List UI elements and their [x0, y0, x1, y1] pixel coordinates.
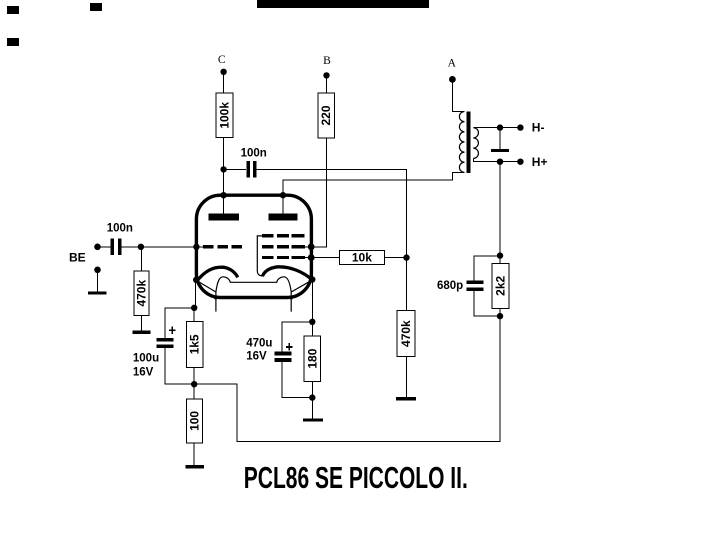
- transformer T1 core: [466, 111, 470, 173]
- svg-text:B: B: [323, 55, 331, 67]
- scan artifact square 1: [7, 6, 19, 14]
- triode cathode: [197, 267, 238, 281]
- resistor 100k: [216, 93, 233, 138]
- junction 180/470u/ground: [309, 394, 315, 400]
- svg-text:680p: 680p: [437, 280, 463, 292]
- ground on H- line: [491, 149, 509, 152]
- svg-text:470k: 470k: [135, 280, 149, 307]
- junction heater right envelope: [289, 296, 293, 300]
- capacitor 100n input plates: [111, 238, 122, 255]
- wire 100k to triode anode: [223, 138, 225, 214]
- wire 100n cap to 10k junction: [256, 169, 406, 257]
- wire secondary bottom H+ line: [473, 158, 520, 161]
- svg-text:A: A: [448, 58, 457, 70]
- ground below 470k output: [396, 397, 416, 401]
- wire C terminal to 100k: [223, 72, 225, 93]
- wire grid node to 470k: [140, 247, 142, 271]
- wire 470k input to ground: [140, 316, 142, 331]
- wire 470k to ground: [405, 357, 407, 397]
- svg-text:H-: H-: [532, 120, 545, 134]
- svg-text:100: 100: [187, 411, 201, 431]
- junction cathode/180/470u: [309, 319, 315, 325]
- svg-text:100k: 100k: [217, 102, 231, 129]
- junction triode grid envelope: [193, 244, 199, 250]
- wire B terminal to 220: [326, 75, 328, 93]
- wire H+ down to 2k2 node: [499, 162, 501, 256]
- svg-text:100u: 100u: [133, 352, 159, 364]
- wire 100 to ground: [193, 443, 195, 465]
- node B terminal dot: [323, 72, 329, 78]
- wire triode cathode down: [194, 280, 196, 308]
- wire 2k2 bottom lead: [499, 308, 501, 316]
- capacitor 470u plus sign: [286, 343, 293, 351]
- resistor 470k input: [134, 271, 149, 316]
- pentode anode plate: [269, 214, 298, 221]
- ground below BE: [88, 291, 107, 294]
- g1 lead to envelope: [305, 257, 311, 259]
- wire cathode node to 470u: [282, 322, 312, 352]
- svg-text:16V: 16V: [133, 366, 154, 378]
- resistor 100: [187, 399, 203, 443]
- node H- terminal dot: [517, 124, 523, 130]
- scan artifact bar: [257, 0, 429, 8]
- pentode grid g1 dashes: [262, 256, 305, 259]
- capacitor 100u plus sign: [169, 326, 176, 334]
- resistor 1k5: [186, 322, 203, 368]
- junction triode cathode envelope: [193, 277, 199, 283]
- tube V1 PCL86 envelope: [196, 195, 311, 297]
- resistor 220: [318, 93, 334, 138]
- capacitor 470u plates: [274, 352, 291, 363]
- junction g2 envelope: [308, 243, 315, 250]
- wire 220 to screen grid g2: [311, 138, 326, 247]
- wire BE terminal to 100n: [98, 246, 111, 248]
- junction 2k2/680p bottom: [497, 313, 503, 319]
- ground below 470k input: [133, 331, 151, 334]
- g2 lead to envelope: [305, 246, 311, 248]
- junction pentode anode envelope: [280, 192, 286, 198]
- node C terminal dot: [220, 69, 226, 75]
- svg-text:1k5: 1k5: [188, 334, 202, 354]
- svg-text:220: 220: [319, 105, 333, 125]
- junction 10k/470k: [403, 254, 409, 260]
- svg-text:10k: 10k: [352, 251, 372, 265]
- svg-text:100n: 100n: [241, 147, 267, 159]
- wire node to 470k top: [406, 258, 408, 311]
- wire secondary top H- line: [473, 127, 520, 129]
- junction H+: [497, 159, 503, 165]
- node BE input dot: [94, 244, 101, 251]
- svg-text:16V: 16V: [246, 351, 267, 363]
- pentode cathode: [262, 267, 312, 280]
- svg-text:2k2: 2k2: [494, 275, 508, 295]
- wire 180 node to ground: [311, 398, 313, 419]
- ground below 100: [185, 465, 204, 468]
- node H+ terminal dot: [517, 159, 523, 165]
- node BE ground dot: [94, 267, 101, 274]
- wire 180 bottom lead: [311, 381, 313, 397]
- wire 680p top branch: [474, 256, 500, 280]
- wire cathode node to 100u: [165, 308, 194, 338]
- junction g1 envelope: [308, 254, 315, 261]
- wire feedback to triode cathode: [194, 316, 500, 441]
- g3 tie line to cathode: [257, 236, 262, 276]
- resistor 10k: [339, 251, 384, 265]
- wire node to 100n coupling cap: [224, 168, 247, 170]
- scan artifact square 2: [90, 3, 102, 11]
- pentode grid g2 dashes: [262, 245, 305, 248]
- pentode grid g3 dashes: [262, 234, 305, 237]
- node A terminal dot: [449, 76, 456, 83]
- resistor 470k output: [397, 311, 415, 357]
- junction triode anode envelope: [220, 192, 226, 198]
- capacitor 100n coupling plates: [246, 161, 256, 178]
- junction H- cap: [497, 124, 503, 130]
- wire pentode cathode down: [311, 280, 313, 322]
- svg-text:C: C: [218, 54, 226, 66]
- wire H- ground stub: [499, 128, 501, 149]
- wire 1k5 bottom lead: [193, 367, 195, 384]
- ground below 180: [303, 418, 323, 421]
- wire g1 to 10k: [311, 257, 339, 259]
- svg-text:470k: 470k: [399, 320, 413, 347]
- junction 2k2/680p top: [497, 252, 503, 258]
- capacitor 100u plates: [157, 338, 174, 348]
- junction cathode/1k5/100u: [191, 305, 197, 311]
- transformer T1 secondary winding: [473, 128, 478, 159]
- wire 100n to triode grid: [122, 246, 204, 248]
- heater filament: [197, 277, 313, 312]
- svg-text:180: 180: [305, 348, 319, 368]
- wire 100u bottom to node: [165, 348, 194, 384]
- junction pentode cathode envelope: [309, 276, 315, 282]
- wire 180 top lead: [311, 322, 313, 336]
- wire 100 top lead: [193, 384, 195, 399]
- svg-text:100n: 100n: [107, 222, 133, 234]
- svg-text:PCL86 SE PICCOLO II.: PCL86 SE PICCOLO II.: [244, 461, 468, 495]
- svg-text:BE: BE: [69, 250, 86, 264]
- junction 100k/100n: [220, 166, 226, 172]
- wire 470u bottom to node: [282, 362, 312, 398]
- svg-text:470u: 470u: [246, 337, 272, 349]
- junction grid/470k: [138, 244, 144, 250]
- triode anode plate: [209, 214, 240, 221]
- wire A terminal to primary top: [452, 79, 464, 111]
- junction heater left envelope: [214, 296, 218, 300]
- wire 2k2 top lead: [499, 256, 501, 264]
- scan artifact square 3: [7, 38, 19, 46]
- resistor 2k2: [492, 263, 509, 308]
- junction 1k5/100/feedback: [191, 381, 197, 387]
- svg-text:H+: H+: [532, 155, 548, 169]
- wire 10k to 470k node: [384, 257, 406, 259]
- triode grid dashes: [203, 245, 242, 248]
- transformer T1 primary winding: [459, 112, 464, 173]
- resistor 180: [304, 336, 321, 381]
- capacitor 680p plates: [466, 280, 483, 291]
- wire pentode anode to transformer primary: [283, 172, 465, 214]
- wire 680p bottom branch: [474, 291, 500, 316]
- wire 1k5 top lead: [193, 308, 195, 322]
- wire BE ground stub: [97, 270, 99, 292]
